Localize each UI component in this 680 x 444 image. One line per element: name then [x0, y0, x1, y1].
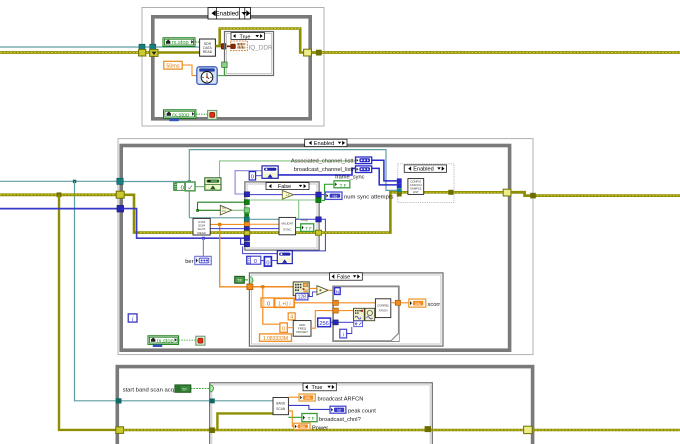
wire: teal to upper case tunnel [189, 217, 244, 219]
svg-text:4: 4 [290, 315, 293, 321]
wire: blue inside case to VALIDATE [250, 228, 279, 230]
junction: orange split [261, 285, 264, 288]
node: small green-bordered function [185, 182, 195, 191]
wire: blue through +1 [250, 194, 316, 196]
wire: lavender int wire rectangle to case tunnel [235, 171, 262, 194]
wire: teal vertical riser and top run to inner disable [189, 150, 397, 218]
svg-text:0: 0 [181, 185, 184, 191]
selector label: Enabled (middle) [305, 139, 347, 147]
node: dequeue element 2 (blue icon) [277, 251, 292, 264]
tunnel: orange on for loop (lower) [333, 308, 338, 313]
global variable rx.stop (top loop stop) [164, 110, 196, 121]
wire: blue i out [347, 327, 352, 334]
tunnel: orange on for loop right [395, 300, 400, 305]
wire: error up and over case structure [215, 29, 303, 53]
svg-text:CORREL: CORREL [377, 303, 390, 307]
svg-text:TF: TF [182, 387, 188, 392]
wires: constants to dequeue2 [261, 259, 278, 261]
subVI: CONFIG ASSOC SAMPLE LIST [408, 179, 424, 195]
node: +1 increment [282, 190, 293, 199]
tunnel: olive on case right border [316, 230, 322, 235]
tunnel: blue on case right border [316, 192, 322, 197]
wire: error inside top loop to SDR DATA READ [158, 51, 200, 54]
svg-text:start band scan acq: start band scan acq [123, 387, 174, 393]
tunnel: blue array [244, 236, 249, 241]
junction: error branch down to bottom loop [57, 192, 62, 197]
for loop [333, 286, 399, 341]
wire: boolean from rx.stop to SDR VI [195, 42, 201, 44]
constant: 50ms [164, 61, 182, 69]
indicator: sync TF [301, 224, 314, 232]
tunnel: light green [244, 208, 249, 213]
svg-text:I32: I32 [337, 408, 342, 412]
svg-text:True: True [312, 385, 323, 391]
svg-text:Enabled: Enabled [215, 11, 239, 18]
indicator: ber [195, 256, 212, 264]
tunnel: teal on bottom case border [209, 399, 214, 404]
wire: error vertical to bottom loop [59, 195, 117, 430]
tunnel: teal on disable border [139, 44, 145, 50]
svg-text:ATION: ATION [379, 308, 388, 312]
svg-text:broadcast ARFCN: broadcast ARFCN [318, 396, 364, 402]
svg-text:READ: READ [203, 50, 213, 54]
terminal: case selector (half circle) [249, 277, 253, 284]
wire: orange matrix to multiply and multiply to N [309, 288, 335, 290]
svg-text:I16: I16 [333, 194, 338, 198]
wire: teal to band scan [215, 400, 273, 402]
wire: pale green boolean-array run to Associated indicator [220, 161, 356, 178]
tunnel: error on bottom case right border [425, 426, 431, 432]
selector label: True (bottom case) [303, 383, 336, 391]
terminal: case selector (bottom case) [210, 385, 214, 392]
svg-text:128: 128 [298, 295, 307, 301]
svg-text:Power: Power [312, 426, 328, 432]
tunnel: dark green [244, 200, 249, 205]
svg-text:peak count: peak count [348, 409, 376, 415]
tunnel: orange on lower case left border [247, 284, 253, 290]
wire: orange to Power [288, 411, 293, 427]
svg-text:rx.stop: rx.stop [172, 112, 189, 118]
tunnel: blue scalar [244, 227, 249, 231]
wire: dark green run upper [198, 202, 245, 210]
constant: 4 [288, 313, 295, 321]
wire: error cluster into middle loop [0, 193, 118, 196]
subVI: CORRELATION [375, 299, 390, 318]
tunnel: green on upper case right border [316, 198, 321, 203]
svg-text:DBL: DBL [305, 396, 312, 400]
junction: error on top disable border [316, 50, 322, 56]
node: dequeue element (blue icon, top) [262, 166, 278, 178]
indicator: broadcast_channel_listt (blue array) [356, 166, 372, 173]
wire: teal session wire into top loop [0, 46, 151, 48]
svg-text:LIST: LIST [413, 190, 419, 194]
tunnel: teal on bottom loop border [116, 398, 122, 403]
svg-text:Enabled: Enabled [314, 141, 335, 147]
selector label: False (lower case) [330, 273, 363, 281]
svg-text:+1: +1 [286, 194, 290, 198]
wire: green validate to TF [296, 227, 301, 229]
wire: blue branch to second tunnel [241, 238, 245, 244]
wire: boolean wait to tunnel [217, 67, 224, 75]
svg-text:DBL: DBL [300, 425, 306, 429]
wire: teal into VALIDATE SYNC [250, 218, 279, 220]
svg-text:SYNC: SYNC [283, 227, 292, 231]
tunnel: blue on middle loop left border [117, 205, 124, 212]
diagram disable structure (middle, Enabled) [118, 139, 533, 355]
svg-text:stop: stop [301, 218, 308, 222]
wire: error to inner disable and loop tunnel [322, 192, 504, 232]
node: comparison triangle [220, 205, 232, 215]
constant: enum 0 (green box with tab) [174, 183, 185, 192]
junction: green [196, 209, 199, 212]
svg-text:0: 0 [251, 175, 254, 181]
wire: orange down and to 0 const [263, 287, 280, 324]
tunnel: error on middle loop right border [503, 189, 511, 196]
terminal: loop condition stop (middle) [196, 336, 205, 345]
wire: boolean from case to frame_sync [322, 184, 334, 200]
node: FFT icon B [365, 308, 375, 320]
constant: blue 0 scalar [264, 257, 271, 267]
node: Wait (ms) timer [197, 67, 217, 85]
wire: 4 into add freq offset [291, 319, 293, 322]
while loop (middle) [121, 146, 509, 351]
while loop (top) [153, 17, 310, 119]
wire: blue 0 to dequeue [256, 175, 262, 177]
junction: lavender drop to ber [202, 237, 205, 240]
tunnel: small green [244, 213, 249, 217]
svg-text:False: False [337, 275, 350, 281]
diagram disable structure (top, Enabled) [142, 8, 324, 127]
constant: 128 [296, 293, 308, 300]
svg-text:DBL: DBL [415, 302, 422, 306]
wire: lavender to ber indicator [202, 238, 204, 256]
control: start band scan acq (TF boolean) [175, 385, 191, 392]
wire: teal inside middle loop [123, 181, 189, 183]
node: array glyph under fft [354, 321, 363, 327]
wire: dotted boolean to stop terminal [196, 113, 208, 115]
svg-text:broadcast_chnl?: broadcast_chnl? [319, 417, 361, 423]
svg-text:False: False [278, 184, 291, 190]
tunnel: boolean on case border (timer) [222, 62, 227, 67]
constant: 1 +0i [275, 298, 295, 307]
global variable rx.stop (middle loop) [148, 336, 179, 347]
wire: error cluster wire into top loop [0, 51, 153, 54]
node: multiply triangle [317, 286, 328, 295]
constant: blue array [0] [247, 256, 261, 265]
wire: blue below upper case to dequeue2 [243, 247, 278, 254]
tunnel: teal [244, 217, 249, 222]
case structure True (top) [225, 32, 274, 76]
wire: pale green sync-found across case to right tunnel [250, 200, 316, 218]
svg-text:T F: T F [308, 416, 315, 421]
svg-text:TF: TF [237, 278, 243, 283]
subVI: VALIDATE SYNC [279, 217, 296, 234]
node: FFT icon A [354, 308, 365, 320]
selector label: True [231, 33, 265, 41]
wire: 0 to add freq offset [287, 327, 293, 329]
constant: True boolean for lower case selector [235, 276, 245, 283]
tunnel stack: inner disable border [397, 178, 402, 183]
tunnel: error on middle loop left border [116, 191, 124, 198]
wire: teal to case [122, 400, 210, 402]
wire: boolean to bottom case selector [191, 387, 210, 389]
svg-text:0: 0 [266, 260, 269, 266]
subVI: BAND SCAN [273, 398, 288, 415]
tunnel: blue (lavender wire) [244, 192, 249, 197]
global variable rx.stop (top) [163, 38, 195, 47]
indicator: broadcast_chnl? (TF) [302, 414, 317, 422]
subVI: SDR DATA READ [200, 39, 216, 56]
wire: green small node to queue icon [195, 186, 205, 188]
tunnel: maroon on case border [221, 44, 226, 49]
wire: orange to broadcast ARFCN [288, 396, 299, 398]
junction: error near sample list VI [448, 190, 453, 195]
svg-text:T F: T F [340, 183, 347, 188]
svg-text:VALIDAT: VALIDAT [281, 221, 293, 225]
selector label: False (upper case) [266, 183, 309, 190]
wire: blue 128 into multiply [308, 292, 317, 297]
svg-text:rx.stop: rx.stop [172, 40, 189, 46]
wire: orange inside to fft icon [338, 310, 353, 312]
diagram disable structure (inner, Enabled) [398, 164, 454, 203]
subVI: GSM SOM SLOT READ [193, 218, 210, 235]
wire: orange inside for loop to correlation [338, 302, 375, 304]
tunnel: blue right border mid [316, 217, 322, 222]
wire: blue 256 to for tunnel [331, 321, 333, 323]
indicator: peak count [330, 406, 346, 413]
wire: to num sync attempts [321, 194, 325, 196]
svg-text:broadcast_channel_listt: broadcast_channel_listt [294, 167, 354, 173]
constant: 0 (second) [280, 323, 287, 333]
terminal: iteration i (for loop) [340, 329, 347, 338]
case structure False (lower) [249, 273, 443, 346]
wire: blue array lower run [124, 209, 245, 239]
wire: orange 1+0i to for tunnel [294, 302, 333, 304]
tunnel: blue solid on for loop [333, 320, 338, 325]
tunnel: orange [244, 222, 249, 226]
wire: orange 50ms to wait [182, 65, 197, 76]
svg-text:ber: ber [185, 259, 193, 265]
terminal: loop condition stop (top) [208, 110, 217, 119]
wire: teal vertical to bottom loop [75, 181, 118, 400]
wire: add freq offset out to for tunnel [311, 311, 333, 329]
subVI: ADD FREQ OFFSET [293, 321, 311, 337]
svg-text:50ms: 50ms [166, 63, 179, 69]
svg-text:OFFSET: OFFSET [296, 330, 308, 334]
wire: blue array from dequeue to broadcast indicator [278, 168, 355, 175]
svg-text:1 +0 i: 1 +0 i [278, 301, 290, 307]
indicator: xcorr (DBL array) [409, 299, 426, 307]
svg-text:num sync attempts: num sync attempts [344, 194, 393, 200]
constant: 0 (first) [261, 298, 274, 308]
tunnel: error on disable border [139, 49, 146, 56]
terminal: N count [335, 288, 341, 296]
wire: teal session wire into middle loop [0, 180, 119, 182]
wire: orange from GSM read to case [210, 223, 244, 225]
svg-text:IQ_DDR: IQ_DDR [249, 44, 274, 51]
wire: error inside middle loop [124, 195, 318, 233]
wire: dotted boolean to stop terminal (middle) [179, 339, 196, 341]
node: build matrix icon [293, 282, 309, 296]
wire: blue risers into sample list VI [372, 160, 397, 181]
svg-text:0: 0 [282, 327, 285, 333]
svg-text:rx.stop: rx.stop [157, 338, 174, 344]
for loop corner notch [391, 333, 399, 341]
tunnel: teal on loop border [150, 44, 156, 50]
indicator: broadcast ARFCN [299, 394, 315, 401]
case structure True (bottom) [210, 383, 433, 444]
wire: error across bottom loop [124, 429, 680, 432]
wire: boolean to lower case selector [244, 279, 248, 281]
selector label: Enabled (top structure) [208, 8, 251, 20]
tunnel: error on loop border with index glyph [150, 49, 158, 56]
wire: green to broadcast_chnl? [288, 416, 302, 418]
wire: teal inside top loop to SDR DATA READ [156, 46, 200, 48]
tunnel: teal on middle loop left border [117, 178, 123, 184]
svg-text:Enabled: Enabled [413, 167, 434, 173]
svg-text:N: N [336, 289, 340, 295]
while loop (bottom) [117, 367, 532, 444]
tunnel: error on bottom loop border [116, 427, 124, 434]
constant: 256 [318, 318, 331, 327]
tunnel: error on bottom loop right border [524, 426, 533, 433]
indicator: frame_sync (TF) [334, 181, 350, 188]
wire: fixed-point data wire (maroon) to case tunnel [215, 45, 231, 47]
terminal: iteration i (middle loop) [128, 314, 137, 323]
junction: teal [188, 180, 191, 183]
svg-text:SCAN: SCAN [276, 407, 286, 411]
wire: error exits top structure to right edge [311, 51, 680, 54]
svg-text:True: True [240, 34, 251, 40]
wire: error exits middle loop [511, 192, 680, 195]
wire: blue loops down to dequeue2 [292, 219, 325, 251]
node: obtain queue (green icon) [205, 178, 221, 190]
tunnel: blue array 2 [244, 242, 249, 247]
svg-text:0: 0 [254, 259, 257, 265]
wire: correlation out [391, 302, 396, 304]
wire: blue scalar from GSM read [210, 228, 244, 230]
wire: pale green from comparison to case tunnel [232, 209, 245, 211]
wire: orange inside case to VALIDATE [250, 223, 279, 225]
junction: error on bottom case border [209, 427, 215, 433]
svg-text:frame_sync: frame_sync [335, 175, 365, 181]
wire: to xcorr indicator [401, 302, 409, 304]
indicator: num sync attempts [325, 192, 342, 199]
junction: orange drop to lower case [218, 223, 221, 226]
node: FIFO write (inside True case) [231, 41, 248, 51]
constant: 1.083333M [260, 334, 292, 342]
svg-text:1.083333M: 1.083333M [263, 336, 288, 342]
tunnel: error on top loop right border [304, 49, 312, 56]
junction: error on disable border [530, 193, 536, 199]
tunnel: error olive [244, 231, 250, 235]
svg-text:READ: READ [197, 231, 206, 235]
svg-text:xcorr: xcorr [428, 302, 441, 308]
junction: teal branch down to bottom loop [73, 180, 76, 183]
wire: error branch up into band scan [217, 413, 273, 430]
indicator: Power [294, 423, 310, 429]
wire: blue to peak count [288, 405, 330, 409]
svg-text:T F: T F [305, 226, 312, 231]
wire: blue array wire into middle loop [0, 208, 119, 210]
svg-text:256: 256 [319, 321, 329, 327]
wire: blue inside for loop [338, 321, 354, 323]
case structure False (upper) [245, 182, 319, 250]
svg-text:Associated_channel_listt: Associated_channel_listt [291, 159, 354, 165]
selector label: Enabled (inner) [404, 165, 446, 173]
tunnel: orange on for loop (upper) [333, 300, 338, 305]
indicator: Associated_channel_listt (blue array) [356, 157, 372, 164]
svg-text:BAND: BAND [276, 402, 286, 406]
wire: orange vertical to lower case [220, 224, 247, 286]
svg-text:0: 0 [267, 301, 270, 307]
wire: orange main into matrix icon [253, 286, 293, 288]
wire: blue from VALIDATE out and around [296, 218, 316, 220]
constant: blue 0 (queue size) [249, 172, 255, 181]
